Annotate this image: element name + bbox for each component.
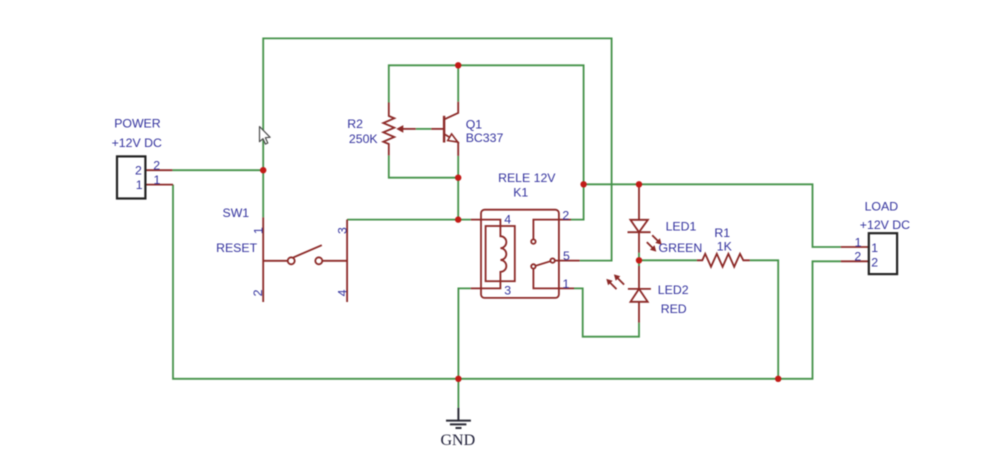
svg-text:1: 1 xyxy=(154,173,161,187)
svg-text:2: 2 xyxy=(135,163,142,177)
svg-text:1K: 1K xyxy=(717,239,733,253)
svg-text:RESET: RESET xyxy=(216,241,257,255)
svg-text:2: 2 xyxy=(153,158,160,172)
svg-text:SW1: SW1 xyxy=(223,206,250,220)
svg-text:Q1: Q1 xyxy=(466,118,483,132)
svg-text:3: 3 xyxy=(504,283,511,297)
svg-text:2: 2 xyxy=(251,289,265,296)
svg-text:+12V DC: +12V DC xyxy=(112,136,162,150)
svg-text:K1: K1 xyxy=(513,185,528,199)
svg-text:5: 5 xyxy=(563,249,570,263)
svg-text:1: 1 xyxy=(855,235,862,249)
svg-text:2: 2 xyxy=(871,255,878,269)
svg-text:2: 2 xyxy=(562,208,569,222)
svg-text:1: 1 xyxy=(871,241,878,255)
svg-text:1: 1 xyxy=(563,277,570,291)
svg-text:RELE 12V: RELE 12V xyxy=(498,171,556,185)
svg-text:4: 4 xyxy=(335,289,349,296)
svg-text:GND: GND xyxy=(441,432,476,449)
svg-text:1: 1 xyxy=(251,227,265,234)
svg-text:LED2: LED2 xyxy=(658,283,689,297)
svg-text:BC337: BC337 xyxy=(466,131,504,145)
svg-text:R1: R1 xyxy=(714,226,730,240)
svg-text:4: 4 xyxy=(504,213,511,227)
svg-text:+12V DC: +12V DC xyxy=(860,218,910,232)
svg-text:1: 1 xyxy=(136,178,143,192)
svg-text:3: 3 xyxy=(335,227,349,234)
svg-text:2: 2 xyxy=(854,250,861,264)
svg-text:RED: RED xyxy=(661,302,687,316)
svg-text:R2: R2 xyxy=(347,117,363,131)
svg-text:POWER: POWER xyxy=(114,116,161,130)
svg-text:GREEN: GREEN xyxy=(659,241,703,255)
svg-text:LED1: LED1 xyxy=(666,220,697,234)
svg-text:LOAD: LOAD xyxy=(865,199,899,213)
svg-text:250K: 250K xyxy=(349,132,379,146)
